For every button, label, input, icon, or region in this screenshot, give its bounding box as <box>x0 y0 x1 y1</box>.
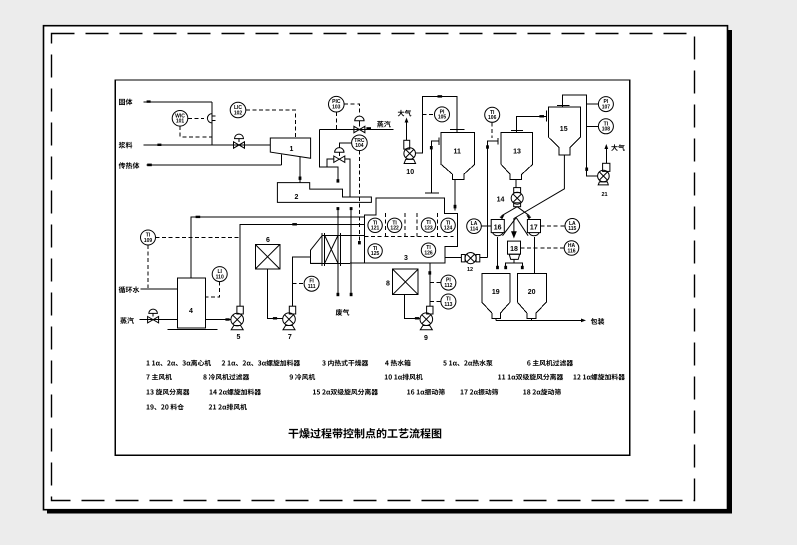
cyclone 15 top nozzle cap <box>557 105 570 107</box>
wire steam branch to valve V3 <box>327 159 334 167</box>
wire dashed PIC to valve <box>344 104 359 116</box>
svg-text:10: 10 <box>406 169 414 176</box>
feeder 14 rotary feeder <box>514 188 521 193</box>
cyclone 15 inlet nozzle bars <box>545 111 547 122</box>
wire feeder 14 chute to screen 17 <box>517 207 529 216</box>
instrument WIC101 <box>172 111 188 127</box>
svg-text:109: 109 <box>144 238 153 244</box>
svg-text:8: 8 <box>386 281 390 288</box>
svg-text:126: 126 <box>424 251 433 257</box>
dashed sampling header in dryer <box>365 236 454 238</box>
feeder 18 <box>508 241 521 254</box>
instrument TI-a in dryer <box>368 218 382 232</box>
svg-text:125: 125 <box>371 251 380 257</box>
wire cyclone 13 solids to feeder 14 <box>515 179 517 187</box>
wire filter 6 to fan 7 <box>268 269 283 319</box>
wire cyclone 15 gas to fan 21 <box>563 95 598 176</box>
wire feeder 14 chute to screen 16 <box>502 207 518 216</box>
cyclone 13 <box>501 132 532 179</box>
filter 6 main fan filter <box>255 245 279 270</box>
instrument TI-e in dryer <box>368 244 382 258</box>
wire 固体 line <box>144 101 213 103</box>
wire dryer gas to cyclone 11 <box>431 141 439 193</box>
fan 21 exhaust fan <box>603 163 610 171</box>
node 传热体 label <box>119 162 140 169</box>
drawing frame <box>115 80 629 455</box>
instrument LA114 <box>467 219 482 234</box>
wire fan 7 riser to duct <box>293 257 311 306</box>
duct to dryer <box>322 235 364 237</box>
svg-text:123: 123 <box>424 225 433 231</box>
svg-text:121: 121 <box>371 226 380 232</box>
svg-text:3: 3 <box>404 255 408 262</box>
cyclone 11 top nozzle cap <box>450 128 465 130</box>
instrument PI105 <box>435 107 450 122</box>
valve V3 <box>334 156 345 162</box>
instrument PIC103 <box>329 96 345 112</box>
bin 20 <box>517 274 546 319</box>
valve V4 on 蒸汽 line <box>148 317 159 323</box>
fan 10 exhaust fan <box>404 140 410 149</box>
svg-text:5: 5 <box>237 334 241 341</box>
wire rotary valve 12 line <box>445 257 461 259</box>
wire dashed WIC bottom tap <box>180 126 212 137</box>
wire machine1 to machine2 drop <box>299 157 301 183</box>
node 循环水 label <box>119 286 140 293</box>
instrument TI108 <box>598 119 613 134</box>
svg-text:21: 21 <box>601 192 607 198</box>
instrument PI107 <box>598 97 613 112</box>
svg-text:104: 104 <box>355 143 364 149</box>
wire fan 21 stack to atmosphere <box>605 146 607 163</box>
wire hot water supply line B <box>240 225 364 307</box>
wire screen 16 drop to bin 19 <box>497 237 499 269</box>
wire dashed PIC pressure tap <box>335 112 337 130</box>
title <box>289 428 442 438</box>
wire dashed PI105 tap <box>422 113 434 115</box>
machine 2 stepped dryer <box>277 183 371 203</box>
instrument TI106 <box>485 107 500 122</box>
wire dashed TI106 tap <box>491 122 493 138</box>
svg-text:17: 17 <box>530 225 538 232</box>
wire screen 17 drop to bin 20 <box>534 237 536 274</box>
tank 4 base <box>168 328 218 330</box>
cyclone 11 inlet nozzle bars <box>438 137 440 145</box>
wire dashed TI113 tap <box>430 301 441 303</box>
valve V2 steam control valve <box>354 126 365 132</box>
cyclone 15 <box>548 107 580 155</box>
legend row 2 <box>146 374 172 380</box>
rotary valve 12 <box>461 255 465 262</box>
svg-text:122: 122 <box>390 226 399 232</box>
wire screen 16 chute to feeder 18 <box>503 218 517 236</box>
svg-text:4: 4 <box>189 308 193 315</box>
wire TI108 tap <box>587 125 599 127</box>
svg-text:101: 101 <box>176 119 185 125</box>
instrument LIC102 <box>230 102 246 118</box>
wire dashed WIC to feeder symbol <box>188 117 204 119</box>
wire dashed FI tap <box>293 283 305 285</box>
node 蒸汽 bottom label <box>120 317 134 324</box>
wire PI107 tap <box>587 103 599 105</box>
wire 循环水 line <box>141 288 178 290</box>
white sheet <box>44 26 728 510</box>
node 大气 label right <box>611 144 625 151</box>
dryer 3 top nozzle <box>425 192 439 194</box>
node 包装 label <box>591 318 605 325</box>
wire hot water return line A <box>191 217 365 278</box>
wire cyclone 15 solids diagonal chute <box>514 155 565 234</box>
wire dashed LI tap <box>206 282 220 297</box>
node 蒸汽 label <box>377 121 391 128</box>
bin 19 <box>482 274 510 319</box>
svg-text:13: 13 <box>513 149 521 156</box>
wire dashed LA115 to screen 17 <box>541 225 566 227</box>
instrument TI-c in dryer <box>421 218 435 232</box>
cyclone 13 inlet nozzle bars <box>497 138 499 145</box>
svg-text:11: 11 <box>453 149 461 156</box>
node 大气 label left <box>398 110 412 117</box>
wire 蒸汽 line to tank <box>139 319 177 321</box>
svg-text:110: 110 <box>216 274 224 280</box>
air heater X element <box>325 236 338 264</box>
machine 1 centrifuge <box>270 138 310 158</box>
legend row 4 <box>147 404 184 410</box>
svg-text:20: 20 <box>528 289 536 296</box>
wire screen 17 chute to feeder 18 <box>516 218 528 236</box>
node 浆料 feed label <box>119 142 133 149</box>
wire 传热体 rise into machine 1 <box>281 155 283 166</box>
wire steam tee down <box>319 130 338 182</box>
svg-text:16: 16 <box>494 225 502 232</box>
legend row 3 <box>147 389 190 395</box>
fan 7 main fan <box>289 306 295 314</box>
instrument LA115 <box>565 219 580 234</box>
wire 浆料 line <box>144 144 271 146</box>
svg-text:115: 115 <box>568 226 576 232</box>
svg-text:2: 2 <box>294 194 298 201</box>
dryer 3 internal-heat dryer outline <box>365 198 458 263</box>
dashed inner border <box>52 34 695 501</box>
wire cyclone 13 gas to cyclone 15 <box>517 117 547 131</box>
legend row 1 <box>147 360 211 366</box>
cyclone 11 <box>441 132 475 179</box>
svg-text:12: 12 <box>467 267 473 273</box>
instrument TI113 <box>441 294 456 309</box>
svg-text:18: 18 <box>510 246 518 253</box>
svg-text:14: 14 <box>497 196 505 203</box>
instrument TRC104 <box>352 135 368 151</box>
wire 废气 pipe 2 <box>350 208 352 296</box>
duct inlet wedge <box>311 236 323 264</box>
screen 17 vibrating screen <box>527 220 540 233</box>
svg-text:19: 19 <box>492 289 500 296</box>
svg-text:124: 124 <box>444 226 453 232</box>
wire fan 10 stack to atmosphere <box>406 119 408 140</box>
wire dashed TI to pump riser <box>156 237 241 239</box>
wire 固体 downcomer <box>211 102 213 145</box>
svg-text:113: 113 <box>444 302 452 308</box>
wire feeder 18 split to bins <box>506 259 514 269</box>
svg-text:107: 107 <box>602 104 611 110</box>
wire cyclone 11 solids discharge <box>454 179 456 210</box>
wire dashed PI112 tap <box>430 282 441 284</box>
feeder symbol on solid line <box>207 114 212 123</box>
svg-text:116: 116 <box>567 248 575 254</box>
svg-text:9: 9 <box>424 335 428 342</box>
svg-text:6: 6 <box>266 237 270 244</box>
fan 9 cold fan <box>427 306 433 314</box>
instrument FI111 <box>304 276 319 291</box>
svg-text:105: 105 <box>438 115 447 121</box>
wire fan 9 riser to dryer bottom <box>429 263 431 306</box>
node 固体 feed label <box>119 99 132 106</box>
svg-text:102: 102 <box>234 110 243 116</box>
filter 8 cold fan filter <box>393 269 419 295</box>
svg-text:108: 108 <box>602 127 611 133</box>
tank 4 hot water tank <box>178 278 206 328</box>
instrument PI112 <box>441 275 456 290</box>
instrument TI-f in dryer <box>421 243 435 257</box>
air heater walls <box>321 233 323 266</box>
wire product line to packing <box>495 319 497 321</box>
wire dashed HA116 to feeder 18 <box>521 247 565 249</box>
instrument TI-d in dryer <box>441 218 455 232</box>
svg-text:114: 114 <box>470 227 478 233</box>
instrument HA116 <box>564 241 579 256</box>
instrument TI109 <box>141 230 156 245</box>
pump 5 hot water pump <box>237 306 243 314</box>
sheet shadow <box>727 30 732 513</box>
svg-text:111: 111 <box>308 284 316 290</box>
svg-text:7: 7 <box>288 334 292 341</box>
wire tank to pump 5 <box>206 319 232 321</box>
svg-text:1: 1 <box>290 146 294 153</box>
wire dashed TI down tap <box>147 245 149 288</box>
node 废气 label <box>336 309 350 316</box>
wire steam main line <box>319 129 393 131</box>
instrument LI110 <box>212 267 227 282</box>
wire valve 12 to riser <box>480 257 488 259</box>
screen 16 vibrating screen <box>491 220 504 233</box>
svg-text:112: 112 <box>444 283 452 289</box>
wire filter 8 to fan 9 <box>405 295 420 319</box>
svg-text:103: 103 <box>332 105 341 111</box>
wire 传热体 line <box>147 164 282 166</box>
wire dashed TRC temperature tap into dryer <box>358 151 360 242</box>
svg-text:106: 106 <box>488 115 497 121</box>
cyclone 13 top nozzle cap <box>511 129 523 131</box>
wire dashed LIC to machine 1 <box>246 110 295 138</box>
wire TRC to valve V3 <box>339 143 351 148</box>
svg-text:15: 15 <box>560 126 568 133</box>
instrument TI-b in dryer <box>387 218 401 232</box>
wire 废气 pipe 1 <box>337 208 339 296</box>
wire LA114 to screen 16 <box>481 225 491 227</box>
valve V1 on 浆料 line <box>234 142 245 148</box>
wire cyclone 11 gas to fan 10 <box>415 97 457 153</box>
wire riser to cyclone 13 inlet <box>488 141 498 258</box>
